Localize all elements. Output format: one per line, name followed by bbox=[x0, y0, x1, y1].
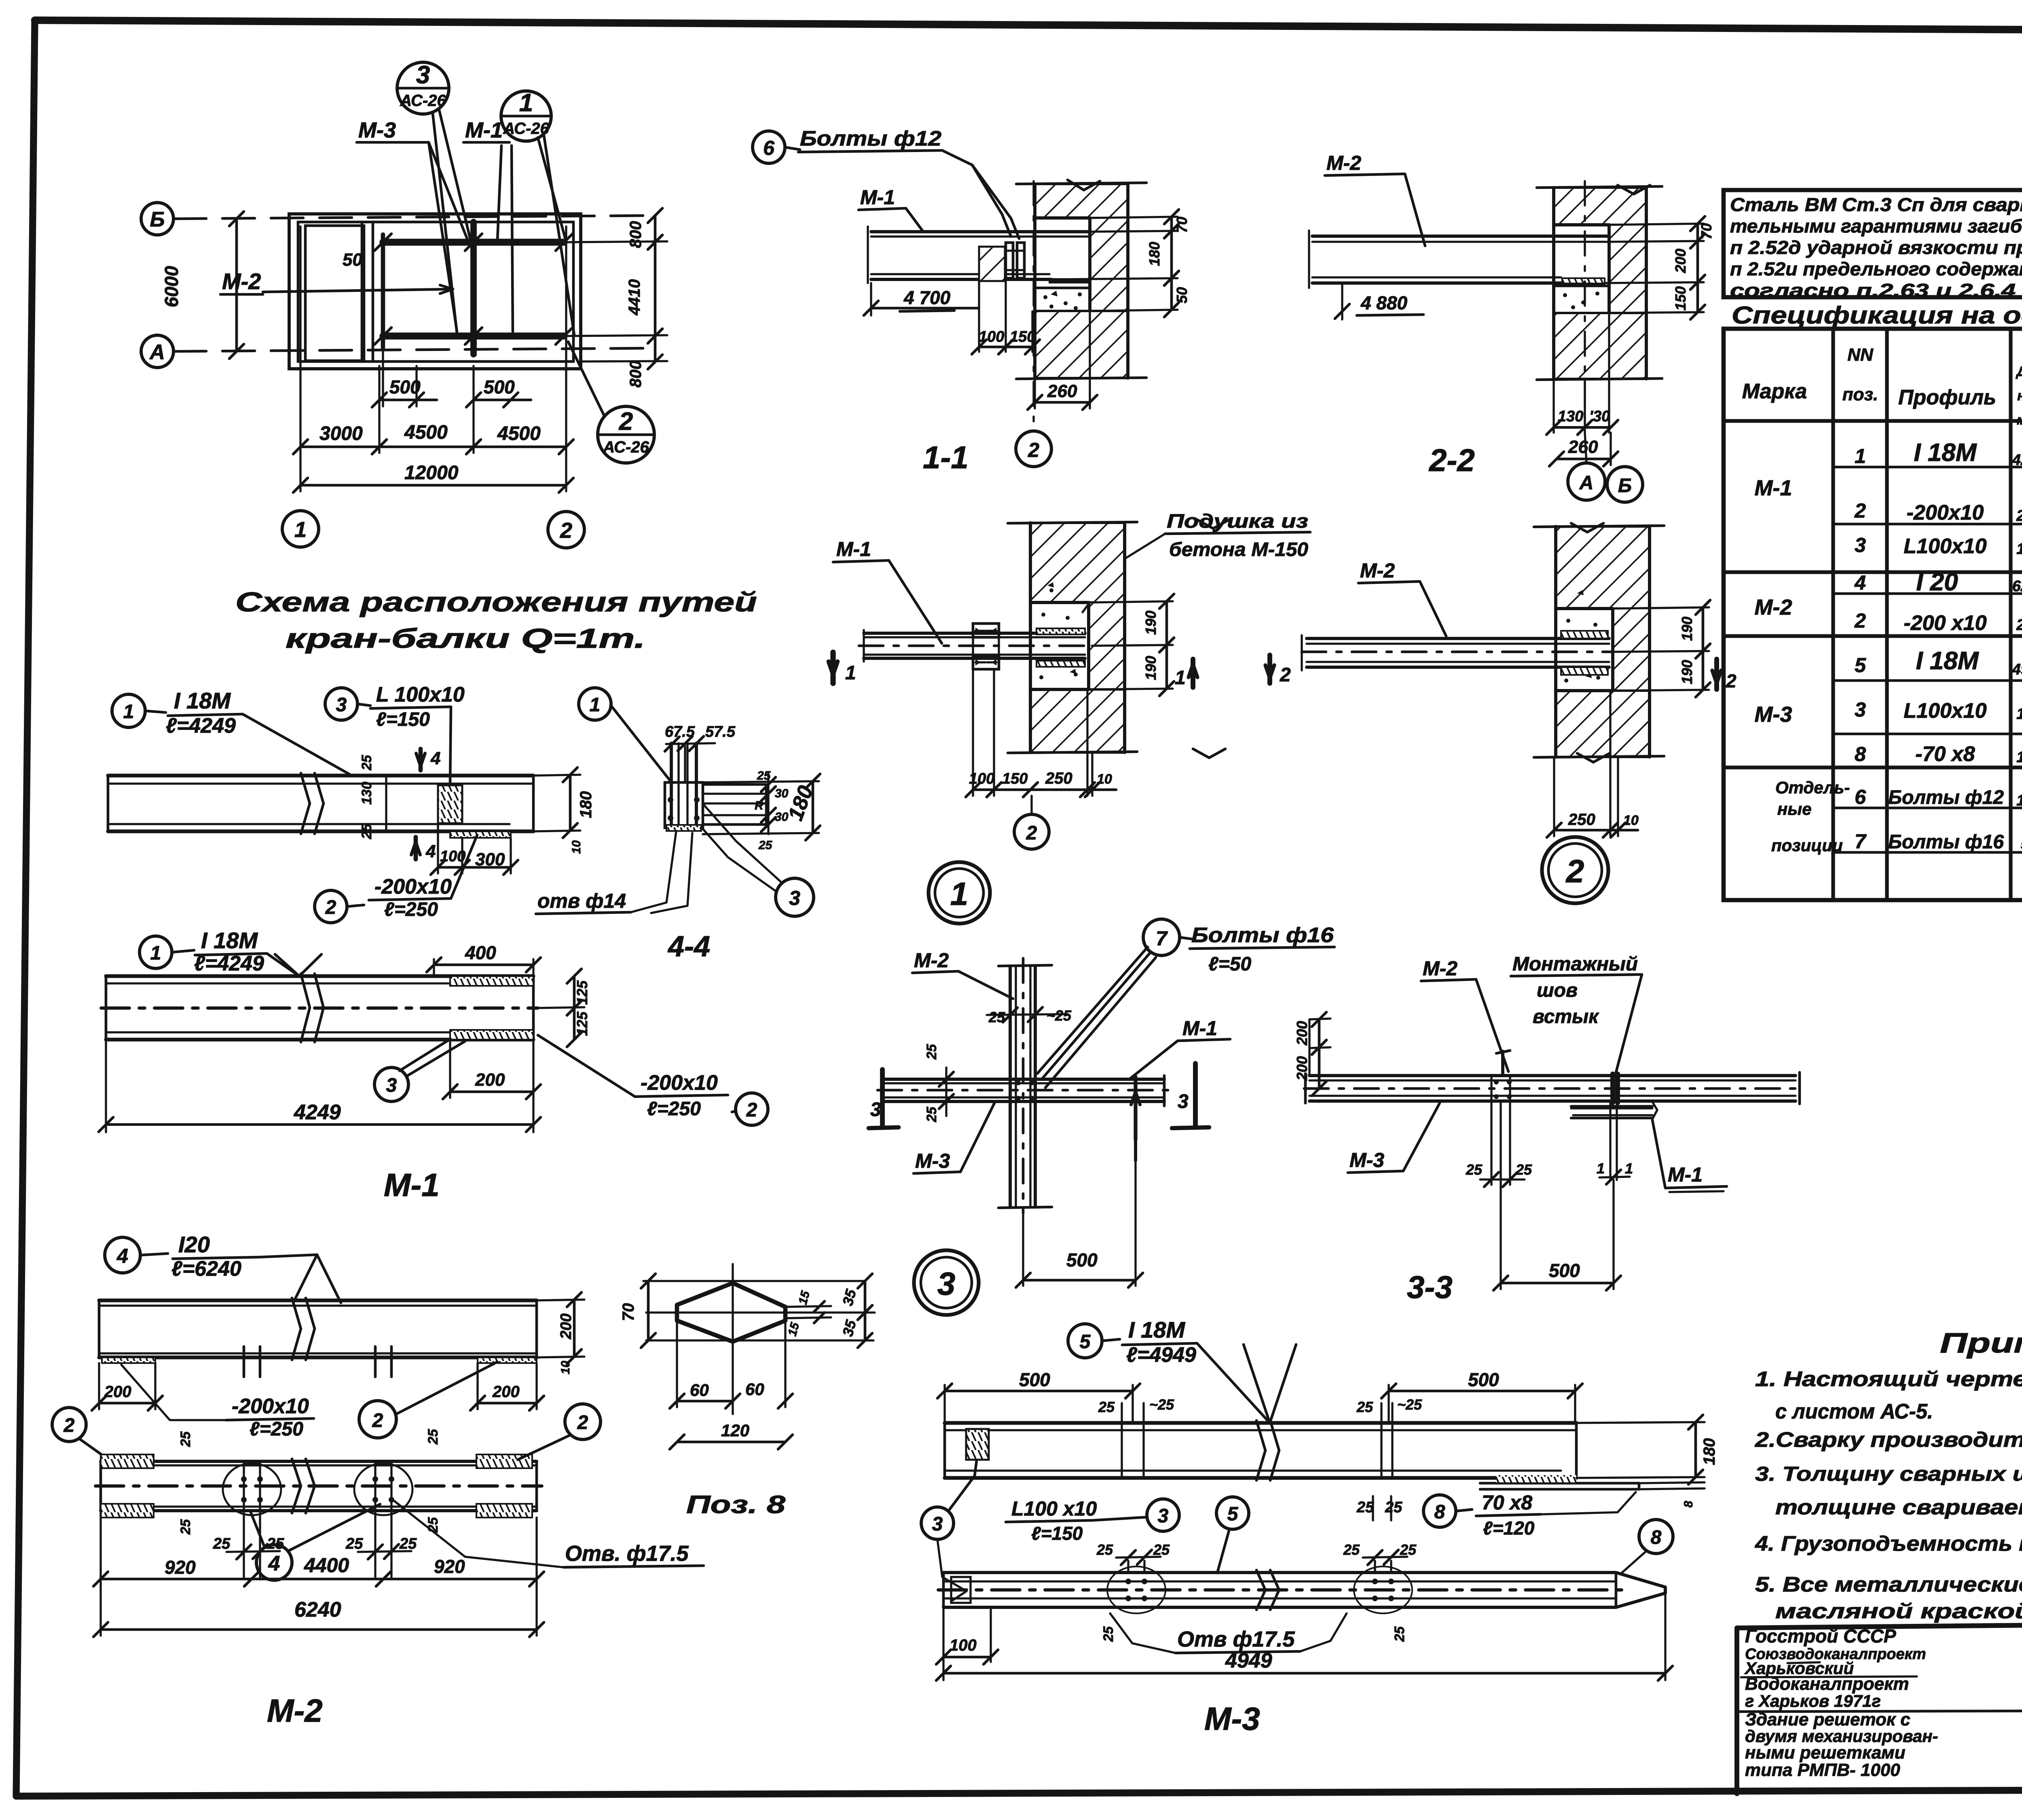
m3 bottom: leader from circle 3 left bbox=[937, 1539, 967, 1601]
svg-text:1: 1 bbox=[150, 943, 161, 964]
svg-text:Подушка из: Подушка из bbox=[1167, 511, 1308, 532]
svg-text:4400: 4400 bbox=[304, 1554, 349, 1577]
svg-text:4500: 4500 bbox=[404, 422, 448, 443]
svg-text:125: 125 bbox=[574, 1011, 590, 1036]
svg-text:тельными гарантиями загиба в х: тельными гарантиями загиба в холодном со… bbox=[1730, 216, 2022, 237]
svg-text:100: 100 bbox=[969, 770, 994, 787]
plan: axis line A dashed bbox=[174, 348, 655, 351]
svg-text:Сталь ВМ Ст.3 Сп для сварных к: Сталь ВМ Ст.3 Сп для сварных конструкций… bbox=[1730, 194, 2022, 215]
svg-text:200: 200 bbox=[475, 1070, 505, 1090]
svg-text:3: 3 bbox=[1158, 1505, 1169, 1527]
svg-text:25: 25 bbox=[1385, 1499, 1402, 1516]
svg-text:ℓ=250: ℓ=250 bbox=[250, 1418, 303, 1440]
plan: M-2 beam vertical in plan bbox=[470, 222, 477, 354]
svg-text:NN: NN bbox=[1847, 345, 1874, 365]
m1 top view: break mark bbox=[301, 773, 310, 803]
svg-text:120: 120 bbox=[2016, 749, 2022, 766]
svg-text:Схема расположения путей: Схема расположения путей bbox=[235, 587, 757, 617]
svg-text:500: 500 bbox=[1549, 1260, 1580, 1281]
pos8: dim 70 left bbox=[647, 1281, 650, 1340]
m1 top view: beam body bbox=[108, 774, 533, 777]
plan: axis circle A bbox=[141, 335, 173, 368]
det44: angle legs horizontal lines bbox=[703, 783, 766, 786]
svg-text:60: 60 bbox=[690, 1380, 709, 1399]
sec1-1: beam side view bbox=[871, 230, 1090, 233]
svg-text:260: 260 bbox=[1568, 437, 1598, 457]
plan: callout circle 2/AC-26 bbox=[598, 406, 654, 463]
svg-text:300: 300 bbox=[475, 850, 505, 869]
svg-text:масляной краской за 2 раза.: масляной краской за 2 раза. bbox=[1775, 1600, 2022, 1623]
svg-text:поз.: поз. bbox=[1842, 385, 1878, 404]
svg-text:на: на bbox=[2017, 388, 2022, 404]
svg-text:ℓ=4249: ℓ=4249 bbox=[194, 952, 264, 975]
svg-text:120: 120 bbox=[721, 1421, 749, 1440]
m2: callout 4 I20 l=6240 bbox=[105, 1237, 140, 1273]
uzel1: beam plan view bbox=[864, 632, 1085, 635]
sec2-2: dims 130 130 below bbox=[1552, 379, 1555, 433]
svg-text:R: R bbox=[755, 799, 764, 812]
m1 top view: bottom plate right bbox=[450, 831, 511, 838]
plan: building outer wall rectangle bbox=[289, 214, 581, 369]
svg-text:ℓ=4249: ℓ=4249 bbox=[166, 714, 236, 738]
svg-text:25: 25 bbox=[359, 755, 374, 771]
svg-text:150: 150 bbox=[2016, 792, 2022, 809]
m1b: circle 3 with leaders bbox=[374, 1067, 408, 1101]
svg-text:3: 3 bbox=[870, 1099, 881, 1120]
uzel1: wall hatch top bbox=[1030, 523, 1125, 602]
det44: mid dims 25 30 R 30 bbox=[767, 774, 769, 834]
svg-text:25: 25 bbox=[1098, 1399, 1115, 1415]
svg-text:25: 25 bbox=[1392, 1626, 1407, 1642]
svg-text:ℓ=50: ℓ=50 bbox=[1208, 953, 1252, 975]
plan: inner partition wall bbox=[361, 222, 364, 361]
uzel2: right dims 190 190 bbox=[1613, 607, 1709, 609]
plan: crane rail top (M-3/M-1) bbox=[383, 239, 564, 245]
m2 top: right dims 200 10 bbox=[537, 1300, 584, 1300]
svg-text:7: 7 bbox=[1855, 830, 1867, 853]
svg-text:1: 1 bbox=[123, 701, 134, 723]
uzel3: M-1 splice mark and arrow bbox=[1134, 1077, 1137, 1139]
svg-text:2: 2 bbox=[746, 1099, 757, 1121]
svg-text:4410: 4410 bbox=[626, 279, 643, 316]
svg-text:2: 2 bbox=[619, 408, 633, 435]
sec1-1: dims 100 150 bbox=[978, 281, 980, 352]
sec2-2: wall hatch above niche bbox=[1554, 188, 1646, 225]
sec3-3: bolt cluster bbox=[1494, 1080, 1512, 1099]
svg-text:отв ф14: отв ф14 bbox=[537, 890, 626, 912]
svg-text:Болты ф12: Болты ф12 bbox=[800, 127, 941, 150]
svg-text:6: 6 bbox=[763, 137, 775, 159]
plan: right dim line 800/4410/800 bbox=[654, 216, 657, 242]
m3 top: dim 500 right bbox=[1387, 1385, 1390, 1423]
svg-text:встык: встык bbox=[1533, 1006, 1599, 1027]
sheet frame border bbox=[35, 20, 2022, 32]
svg-text:АС-26: АС-26 bbox=[503, 120, 549, 137]
plan: dim 500 500 row bbox=[379, 399, 417, 402]
svg-text:ные: ные bbox=[1777, 799, 1812, 818]
svg-text:25: 25 bbox=[1096, 1541, 1113, 1558]
svg-text:шов: шов bbox=[1537, 980, 1578, 1001]
sec1-1: axis circle 2 bbox=[1016, 431, 1051, 467]
m1b: beam body bbox=[106, 974, 533, 978]
m2 top: beam body bbox=[99, 1298, 537, 1302]
sec2-2: beam side view bbox=[1312, 235, 1609, 238]
plan: axis circle B bbox=[141, 203, 173, 235]
sec2-2: axis circles A B bbox=[1585, 433, 1586, 463]
svg-text:2: 2 bbox=[1726, 670, 1736, 691]
svg-text:200: 200 bbox=[104, 1383, 131, 1401]
svg-text:150: 150 bbox=[1002, 770, 1028, 787]
svg-text:Б: Б bbox=[150, 208, 165, 231]
m1 top view: dim 180 right bbox=[533, 775, 580, 776]
m3 bottom: break mark bbox=[1256, 1570, 1265, 1590]
svg-text:130: 130 bbox=[2016, 541, 2022, 558]
uzel1: end plate pos2 bbox=[973, 624, 999, 637]
svg-text:А: А bbox=[1579, 472, 1594, 494]
sec1-1: wall break mark top bbox=[1068, 180, 1100, 190]
svg-text:2: 2 bbox=[372, 1410, 383, 1431]
svg-text:70: 70 bbox=[1174, 217, 1190, 233]
svg-text:180: 180 bbox=[1146, 242, 1163, 266]
sec1-1: wall hatch right of niche bbox=[1090, 218, 1128, 311]
svg-text:Спецификация на одну штуку каж: Спецификация на одну штуку каждой марки bbox=[1732, 302, 2022, 329]
svg-text:Монтажный: Монтажный bbox=[1512, 953, 1638, 975]
m2 bottom: circle 2 right bbox=[565, 1404, 601, 1440]
plan: axis line B dashed bbox=[174, 216, 655, 219]
sec1-1: wall hatch above niche bbox=[1035, 184, 1128, 218]
m3: callout 5 I18M l=4949 bbox=[1068, 1324, 1102, 1358]
svg-text:ℓ=250: ℓ=250 bbox=[384, 899, 438, 920]
m3 bottom: left angle plate dashed bbox=[951, 1577, 971, 1603]
svg-text:~25: ~25 bbox=[1149, 1396, 1174, 1413]
svg-text:500: 500 bbox=[1066, 1249, 1098, 1270]
m3 top: dims 25-25 left pair bbox=[1121, 1403, 1123, 1423]
svg-text:ℓ=120: ℓ=120 bbox=[1483, 1518, 1535, 1539]
m1b: dim 4249 bottom bbox=[105, 1040, 107, 1132]
svg-text:АС-26: АС-26 bbox=[603, 438, 649, 456]
uzel1: weld strips at beam end bbox=[1036, 628, 1085, 634]
svg-text:М-3: М-3 bbox=[915, 1150, 950, 1172]
svg-text:2: 2 bbox=[1565, 853, 1584, 889]
det44: right dim 180 bbox=[703, 781, 819, 782]
m3: callout circle 8 right bbox=[1639, 1520, 1673, 1554]
svg-text:6240: 6240 bbox=[294, 1598, 341, 1621]
svg-text:8: 8 bbox=[1855, 743, 1866, 765]
m2 bottom: circle 2 left bbox=[52, 1408, 86, 1442]
plan: left room opening bbox=[305, 226, 364, 361]
svg-text:70: 70 bbox=[620, 1303, 637, 1321]
pos8: hexagon plate bbox=[677, 1283, 785, 1342]
svg-text:6240: 6240 bbox=[2012, 578, 2022, 595]
svg-text:1: 1 bbox=[845, 662, 856, 684]
uzel2: bottom dims 250 10 bbox=[1553, 757, 1555, 836]
svg-text:2: 2 bbox=[1028, 439, 1039, 461]
svg-text:Отв ф17.5: Отв ф17.5 bbox=[1177, 1627, 1295, 1651]
m2 top: dims 200 200 bbox=[98, 1363, 100, 1409]
m3 top: right dim 180 and 8 bbox=[1576, 1422, 1705, 1423]
svg-text:4500: 4500 bbox=[497, 423, 541, 444]
uzel1: wall break marks bbox=[1197, 520, 1229, 528]
svg-text:3: 3 bbox=[1855, 534, 1866, 556]
spec: table verticals bbox=[1831, 329, 1835, 900]
svg-text:1: 1 bbox=[1175, 667, 1186, 689]
svg-text:Болты ф16: Болты ф16 bbox=[1191, 924, 1334, 947]
svg-text:Примечания.: Примечания. bbox=[1940, 1327, 2022, 1359]
svg-text:25: 25 bbox=[399, 1535, 417, 1552]
svg-text:4949: 4949 bbox=[2012, 661, 2022, 678]
sec1-1: callout circle 6 bolts bbox=[753, 131, 785, 163]
svg-text:500: 500 bbox=[389, 376, 421, 397]
svg-text:-200 х10: -200 х10 bbox=[1904, 611, 1986, 635]
svg-text:25: 25 bbox=[1101, 1626, 1116, 1642]
svg-text:2: 2 bbox=[1026, 822, 1037, 844]
svg-text:позиции: позиции bbox=[1771, 836, 1843, 855]
sec2-2: weld strip under beam end bbox=[1562, 278, 1605, 283]
svg-text:25: 25 bbox=[1400, 1541, 1417, 1558]
uzel2: section mark 2 right bbox=[1714, 659, 1719, 689]
svg-text:'30: '30 bbox=[1589, 408, 1610, 425]
svg-text:180: 180 bbox=[577, 791, 595, 818]
m3: callout circle 5 mid bbox=[1216, 1497, 1249, 1529]
svg-text:мм: мм bbox=[2017, 412, 2022, 428]
svg-text:-200х10: -200х10 bbox=[232, 1395, 309, 1418]
uzel1: bottom dims 100 150 250 10 bbox=[972, 670, 974, 796]
sec3-3: splice plate under beam right bbox=[1571, 1105, 1652, 1108]
svg-text:25: 25 bbox=[1466, 1161, 1483, 1178]
svg-text:3000: 3000 bbox=[319, 423, 363, 444]
svg-text:М-1: М-1 bbox=[860, 186, 895, 209]
svg-text:I 18М: I 18М bbox=[1128, 1317, 1185, 1342]
svg-text:1: 1 bbox=[1597, 1160, 1605, 1177]
pos8: dims 60 60 bbox=[676, 1321, 678, 1407]
svg-text:100: 100 bbox=[950, 1636, 977, 1654]
svg-text:200: 200 bbox=[1672, 249, 1689, 273]
m3 top: left angle plate welded bbox=[966, 1429, 989, 1460]
m3 top: right thin plate 70x8 bbox=[1480, 1482, 1639, 1485]
svg-text:500: 500 bbox=[1468, 1369, 1499, 1390]
svg-text:25: 25 bbox=[1356, 1499, 1374, 1516]
svg-text:3: 3 bbox=[1855, 698, 1866, 721]
svg-text:5: 5 bbox=[1855, 654, 1866, 676]
uzel2: wall hatch top bbox=[1556, 526, 1650, 609]
svg-text:Отв. ф17.5: Отв. ф17.5 bbox=[565, 1541, 689, 1566]
svg-text:~25: ~25 bbox=[1047, 1007, 1072, 1024]
m2 bottom: dim row 920 4400 920 bbox=[99, 1511, 102, 1585]
svg-text:4: 4 bbox=[268, 1552, 280, 1575]
svg-text:М-3: М-3 bbox=[1755, 702, 1792, 727]
svg-text:920: 920 bbox=[165, 1557, 196, 1578]
sec1-1: dim 260 below wall bbox=[1034, 378, 1036, 408]
svg-text:М-3: М-3 bbox=[1204, 1701, 1260, 1737]
svg-text:Болты ф16: Болты ф16 bbox=[1888, 831, 2004, 853]
svg-text:1: 1 bbox=[1625, 1160, 1633, 1177]
m3: callout circle 3 mid bbox=[1147, 1499, 1179, 1531]
svg-text:25: 25 bbox=[758, 839, 773, 852]
uzel3: dims 25 25 left rotated bbox=[945, 1067, 947, 1116]
m1b: right dims 125 125 bbox=[533, 1007, 584, 1008]
svg-text:типа РМПВ- 1000: типа РМПВ- 1000 bbox=[1745, 1760, 1900, 1780]
m1b: break mark bbox=[301, 974, 310, 1008]
plan: axis circle 1 bottom bbox=[282, 511, 319, 547]
uzel3: bolt cluster at crossing bbox=[1016, 1080, 1034, 1101]
uzel3: big node circle 3 bbox=[914, 1250, 979, 1315]
spec: steel note box bbox=[1724, 190, 2022, 297]
svg-text:2: 2 bbox=[1854, 609, 1866, 632]
svg-text:М-2: М-2 bbox=[1326, 152, 1361, 174]
svg-text:25: 25 bbox=[1153, 1541, 1170, 1558]
plan: rail support vertical at axis 1 side bbox=[381, 235, 385, 348]
svg-text:25: 25 bbox=[1515, 1161, 1532, 1178]
svg-text:500: 500 bbox=[484, 376, 515, 397]
svg-text:4249: 4249 bbox=[2012, 452, 2022, 469]
m1 top view: plate pos3 welded bbox=[438, 785, 462, 823]
m3 bottom: beam body bbox=[943, 1571, 1616, 1574]
svg-text:150: 150 bbox=[1672, 286, 1689, 311]
svg-text:8: 8 bbox=[1651, 1527, 1662, 1548]
svg-text:4 880: 4 880 bbox=[1360, 292, 1408, 313]
svg-text:I20: I20 bbox=[178, 1232, 210, 1257]
svg-text:250: 250 bbox=[2016, 617, 2022, 634]
svg-text:920: 920 bbox=[434, 1556, 465, 1577]
svg-text:АС-26: АС-26 bbox=[400, 92, 446, 110]
svg-text:Поз. 8: Поз. 8 bbox=[686, 1491, 786, 1519]
svg-text:3: 3 bbox=[336, 694, 347, 716]
svg-text:5: 5 bbox=[1080, 1331, 1091, 1353]
sec2-2: dim 4880 bbox=[1341, 283, 1343, 319]
svg-text:57.5: 57.5 bbox=[705, 723, 736, 740]
plan: callout circle 3/AC-26 bbox=[397, 62, 449, 114]
svg-text:1-1: 1-1 bbox=[923, 440, 969, 475]
svg-text:Марка: Марка bbox=[1742, 380, 1807, 403]
spec: header bottom line bbox=[1724, 419, 2022, 423]
sec2-2: concrete pad dots bbox=[1554, 285, 1609, 287]
svg-text:3: 3 bbox=[789, 887, 800, 909]
svg-text:М-2: М-2 bbox=[1755, 595, 1792, 619]
sec3-3: beam strip bbox=[1309, 1074, 1796, 1077]
svg-text:190: 190 bbox=[1679, 660, 1695, 684]
uzel3: dims 25 25 top pair bbox=[987, 1014, 1068, 1015]
svg-text:25: 25 bbox=[213, 1535, 231, 1552]
m3 top: bolt line verticals bbox=[1121, 1423, 1123, 1478]
m3 bottom: pointed tip right bbox=[1616, 1573, 1665, 1607]
svg-text:4: 4 bbox=[430, 748, 440, 768]
svg-text:25: 25 bbox=[924, 1106, 939, 1122]
svg-text:10: 10 bbox=[1097, 772, 1112, 787]
uzel1: niche outline bbox=[1030, 601, 1089, 604]
svg-text:10: 10 bbox=[1623, 813, 1639, 828]
svg-text:L100х10: L100х10 bbox=[1904, 699, 1986, 723]
svg-text:4249: 4249 bbox=[294, 1101, 341, 1124]
svg-text:4: 4 bbox=[116, 1245, 128, 1267]
svg-text:2-2: 2-2 bbox=[1428, 442, 1475, 478]
svg-text:2: 2 bbox=[577, 1412, 588, 1433]
sec1-1: wall axis dash line bbox=[1032, 181, 1034, 429]
svg-text:5. Все металлические конструкц: 5. Все металлические конструкции окрасит… bbox=[1755, 1573, 2022, 1596]
svg-text:Б: Б bbox=[1618, 475, 1632, 497]
svg-text:25: 25 bbox=[757, 769, 771, 782]
m3: callout circle 8 bbox=[1423, 1495, 1456, 1527]
det44: angle bottom leg hatched bbox=[666, 825, 701, 831]
m3 bottom: dim 100 bbox=[942, 1607, 944, 1662]
svg-text:ными решетками: ными решетками bbox=[1745, 1743, 1906, 1763]
svg-text:200: 200 bbox=[558, 1313, 575, 1339]
svg-text:60: 60 bbox=[745, 1380, 764, 1399]
svg-text:3: 3 bbox=[932, 1513, 943, 1535]
svg-text:-70 х8: -70 х8 bbox=[1915, 742, 1975, 766]
svg-text:ℓ=150: ℓ=150 bbox=[376, 709, 430, 730]
svg-text:190: 190 bbox=[1142, 611, 1159, 635]
sec2-2: wall axis dash line bbox=[1584, 181, 1586, 429]
svg-text:800: 800 bbox=[627, 221, 645, 248]
svg-text:Госстрой СССР: Госстрой СССР bbox=[1745, 1626, 1896, 1647]
plan: extension lines down bbox=[299, 226, 301, 491]
svg-text:70: 70 bbox=[1698, 223, 1715, 239]
sec3-3: dim 500 below bbox=[1500, 1185, 1502, 1289]
svg-text:50: 50 bbox=[343, 250, 362, 270]
uzel3: callout 7 circle bbox=[1143, 919, 1180, 955]
pos8: dim 120 bbox=[677, 1441, 785, 1444]
m2 bottom: bolt clusters bbox=[241, 1476, 263, 1503]
svg-text:25: 25 bbox=[1356, 1399, 1373, 1415]
sec2-2: wall hatch below bbox=[1554, 313, 1646, 379]
svg-text:Болты ф12: Болты ф12 bbox=[1888, 787, 2004, 808]
svg-text:М-3: М-3 bbox=[1349, 1149, 1384, 1171]
svg-text:бетона М-150: бетона М-150 bbox=[1169, 539, 1308, 560]
m1: callout 2 -200x10 l=250 bbox=[315, 890, 347, 923]
svg-text:3: 3 bbox=[937, 1266, 956, 1302]
svg-text:100: 100 bbox=[440, 848, 465, 865]
m2 bottom: dim 6240 bbox=[99, 1585, 102, 1636]
det44: assembly box with bolts bbox=[665, 782, 703, 828]
svg-text:250: 250 bbox=[1568, 811, 1595, 829]
svg-text:I 20: I 20 bbox=[1916, 568, 1958, 596]
svg-text:2: 2 bbox=[1280, 664, 1291, 686]
uzel1: big node circle 1 bbox=[929, 862, 990, 924]
svg-text:800: 800 bbox=[627, 361, 645, 388]
sec1-1: concrete pad dots bbox=[1035, 287, 1090, 290]
svg-text:4. Грузоподъемность кран - бал: 4. Грузоподъемность кран - балки Q = 1.0… bbox=[1755, 1532, 2022, 1556]
svg-text:ℓ=250: ℓ=250 bbox=[647, 1098, 701, 1120]
uzel2: big node circle 2 bbox=[1542, 837, 1608, 903]
svg-text:-200х10: -200х10 bbox=[641, 1071, 718, 1095]
svg-text:2: 2 bbox=[1854, 499, 1866, 522]
m1b: dim 400 bbox=[433, 959, 435, 976]
svg-text:25: 25 bbox=[924, 1044, 939, 1060]
det44: angle pair vertical bars bbox=[670, 743, 673, 830]
svg-text:2: 2 bbox=[325, 897, 336, 918]
titleblock: col1 row lines bbox=[1737, 1711, 2022, 1712]
svg-text:25: 25 bbox=[1343, 1541, 1360, 1558]
m2 top: weld plates bottom ends bbox=[102, 1357, 155, 1363]
svg-text:согласно п.2.63 и 2.6.4 Г: согласно п.2.63 и 2.6.4 ГОСТ 380-60*. bbox=[1730, 280, 2022, 301]
uzel1: right dims 190 190 bbox=[1089, 601, 1173, 602]
m3: callout row circle 3 left bbox=[921, 1507, 954, 1539]
uzel2: weld strips bbox=[1561, 631, 1608, 638]
det44: callout 3 right with leaders bbox=[776, 878, 814, 916]
svg-text:7: 7 bbox=[1156, 927, 1168, 950]
m2 bottom: beam body bbox=[101, 1460, 537, 1463]
svg-text:25: 25 bbox=[178, 1519, 193, 1535]
uzel3: vertical beam M-2 strip bbox=[1009, 966, 1012, 1207]
svg-text:п 2.52и предельного содержани: п 2.52и предельного содержания химически… bbox=[1730, 258, 2022, 279]
svg-text:1. Настоящий чертеж рассматрив: 1. Настоящий чертеж рассматривать совмес… bbox=[1755, 1368, 2022, 1391]
svg-text:~25: ~25 bbox=[1397, 1396, 1422, 1413]
pos8: top and bottom extension lines bbox=[643, 1280, 865, 1282]
svg-text:2: 2 bbox=[63, 1415, 75, 1436]
m3 bottom: dim 4949 bbox=[942, 1660, 944, 1680]
m2 bottom: weld plates right end bbox=[476, 1454, 532, 1468]
svg-text:30: 30 bbox=[775, 787, 789, 800]
